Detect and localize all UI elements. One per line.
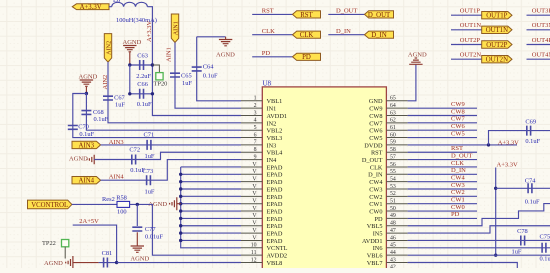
capacitor C81 (series)	[104, 258, 108, 268]
svg-text:R58: R58	[116, 194, 127, 201]
svg-text:0.1uF: 0.1uF	[525, 138, 540, 145]
svg-text:VBL3: VBL3	[267, 135, 283, 142]
svg-text:C77: C77	[145, 226, 156, 233]
svg-text:CLK: CLK	[370, 164, 383, 171]
svg-text:AIN1: AIN1	[166, 47, 173, 62]
junction	[85, 92, 88, 95]
svg-text:CW9: CW9	[451, 101, 465, 108]
pin V EPAD (left)	[241, 239, 262, 241]
svg-text:IN5: IN5	[373, 231, 383, 238]
pin 1 VBL1 (left)	[241, 100, 262, 102]
svg-text:1uF: 1uF	[182, 80, 192, 87]
svg-text:VBL7: VBL7	[367, 260, 383, 267]
svg-text:63: 63	[390, 110, 396, 116]
wire EPAD row	[181, 195, 241, 197]
wire DVDD A+3.3V	[408, 144, 517, 146]
svg-text:CW7: CW7	[369, 120, 382, 127]
port VCONTROL	[28, 200, 72, 209]
svg-text:C74: C74	[525, 178, 536, 185]
wire IN6 through C75	[408, 247, 550, 249]
test point TP22 pin	[64, 247, 66, 259]
wire AIN4 to pin 9	[101, 160, 241, 181]
pin 44 VBL6 (right)	[386, 254, 407, 256]
pin V EPAD (left)	[241, 188, 262, 190]
svg-text:8: 8	[254, 147, 257, 153]
port AIN3	[72, 141, 101, 148]
svg-text:0.1uF: 0.1uF	[94, 116, 109, 123]
wire VBL5	[408, 204, 550, 226]
svg-text:45: 45	[390, 243, 396, 249]
svg-text:DVDD: DVDD	[364, 142, 383, 149]
wire C70 to pin 6 VBL3	[73, 94, 241, 138]
wire VBL7	[408, 263, 518, 269]
pin 46 AVDD1 (right)	[386, 239, 407, 241]
capacitor C73 (series)	[147, 175, 151, 185]
pin 65 GND (right)	[386, 100, 407, 102]
junction	[179, 217, 182, 220]
svg-text:IN1: IN1	[267, 106, 277, 113]
wire EPAD row	[181, 210, 241, 212]
wire to C74	[496, 187, 550, 189]
pin 49 PD (right)	[386, 217, 407, 219]
pin 7 IN3 (left)	[241, 144, 262, 146]
pin 64 CW9 (right)	[386, 107, 407, 109]
ground stem	[129, 52, 131, 65]
pin 51 CW1 (right)	[386, 203, 407, 205]
svg-text:OUT1P: OUT1P	[486, 13, 507, 20]
svg-text:46: 46	[390, 235, 396, 241]
svg-text:AGND: AGND	[44, 260, 63, 267]
svg-text:AIN3: AIN3	[109, 139, 124, 146]
svg-text:VBL5: VBL5	[367, 223, 383, 230]
capacitor C75 (series)	[542, 243, 546, 253]
svg-text:C68: C68	[93, 109, 104, 116]
junction	[179, 239, 182, 242]
svg-text:EPAD: EPAD	[267, 238, 283, 245]
capacitor C71 (series)	[147, 140, 151, 150]
junction	[151, 92, 154, 95]
svg-text:RST: RST	[371, 150, 383, 157]
wire	[109, 6, 112, 8]
svg-text:55: 55	[390, 169, 396, 175]
svg-text:PD: PD	[374, 216, 383, 223]
junction	[179, 231, 182, 234]
svg-text:1uF: 1uF	[145, 189, 155, 196]
svg-text:OUT4P: OUT4P	[532, 37, 550, 44]
svg-text:7: 7	[254, 140, 257, 146]
wire C66 row	[130, 93, 153, 95]
wire EPAD row	[181, 203, 241, 205]
svg-text:AVDD1: AVDD1	[362, 238, 383, 245]
svg-text:Res2: Res2	[102, 196, 115, 203]
ground stem	[225, 37, 227, 40]
wire CW5	[408, 137, 477, 139]
svg-text:5: 5	[254, 125, 257, 131]
wire	[99, 262, 117, 264]
svg-text:EPAD: EPAD	[267, 223, 283, 230]
svg-text:1uF: 1uF	[512, 249, 522, 256]
wire C68 to pin 5 VBL2	[86, 94, 241, 131]
wire RST	[408, 151, 477, 153]
wire OUT1N	[451, 29, 482, 31]
svg-text:50: 50	[390, 206, 396, 212]
svg-text:1uF: 1uF	[115, 102, 125, 109]
pin 54 CW4 (right)	[386, 181, 407, 183]
svg-text:D_IN: D_IN	[371, 32, 387, 39]
pin V EPAD (left)	[241, 181, 262, 183]
svg-text:VBL4: VBL4	[267, 150, 284, 157]
svg-text:62: 62	[390, 118, 396, 124]
svg-text:RST: RST	[262, 8, 274, 15]
wire CW0	[408, 210, 477, 212]
svg-text:CW0: CW0	[369, 208, 382, 215]
wire VBL6	[408, 254, 550, 256]
wire EPAD row	[181, 166, 241, 168]
svg-text:CLK: CLK	[300, 32, 314, 39]
ground AGND symbol (horizontal)	[87, 155, 94, 165]
svg-text:CLK: CLK	[262, 28, 275, 35]
junction	[128, 92, 131, 95]
svg-text:OUT2N: OUT2N	[460, 52, 482, 59]
ground stem	[85, 87, 87, 94]
wire R58 to pin 11 AVDD2	[130, 204, 241, 255]
wire C63 row	[130, 64, 153, 66]
pin 6 VBL3 (left)	[241, 137, 262, 139]
wire A+3.3V to pin 3 AVDD1	[147, 7, 241, 116]
svg-text:0.1uF: 0.1uF	[525, 198, 540, 205]
svg-text:D_IN: D_IN	[336, 28, 351, 35]
wire OUT2P	[451, 44, 482, 46]
ground AGND symbol	[409, 58, 422, 64]
svg-text:D_OUT: D_OUT	[451, 152, 472, 159]
power port A+3.3V	[72, 4, 109, 10]
svg-text:IN6: IN6	[373, 245, 383, 252]
capacitor C74 (series)	[528, 183, 532, 193]
svg-text:CW9: CW9	[369, 106, 382, 113]
svg-text:OUT1N: OUT1N	[460, 22, 482, 29]
capacitor C78 (series)	[521, 235, 525, 245]
svg-text:53: 53	[390, 184, 396, 190]
wire AGND rail	[129, 65, 131, 94]
svg-text:6: 6	[254, 132, 257, 138]
capacitor C77	[132, 227, 142, 231]
wire to C77	[136, 204, 138, 226]
svg-text:OUT2N: OUT2N	[486, 57, 508, 64]
junction	[179, 195, 182, 198]
svg-text:D_OUT: D_OUT	[368, 12, 391, 19]
wire AVDD1 through C78	[408, 239, 550, 241]
svg-text:2A+5V: 2A+5V	[79, 218, 99, 225]
wire AIN3 to pin 7	[101, 144, 241, 146]
svg-text:AGND: AGND	[130, 256, 149, 263]
pin 45 IN6 (right)	[386, 247, 407, 249]
capacitor C67 (series on AIN2)	[103, 96, 113, 100]
junction	[487, 143, 490, 146]
svg-text:C73: C73	[143, 168, 154, 175]
wire OUT4N	[527, 58, 550, 60]
wire CW6	[408, 129, 477, 131]
svg-text:C81: C81	[102, 250, 113, 257]
pin 2 IN1 (left)	[241, 107, 262, 109]
svg-text:2: 2	[254, 103, 257, 109]
svg-text:D_OUT: D_OUT	[336, 8, 357, 15]
svg-text:TP22: TP22	[42, 240, 56, 247]
svg-text:AVDD1: AVDD1	[267, 113, 288, 120]
svg-text:PD: PD	[262, 50, 271, 57]
svg-text:56: 56	[390, 162, 396, 168]
svg-text:A+3.3V: A+3.3V	[497, 161, 518, 168]
wire D_OUT	[328, 13, 364, 15]
svg-text:CW2: CW2	[451, 189, 465, 196]
svg-text:100: 100	[117, 208, 127, 215]
pin 62 CW7 (right)	[386, 122, 407, 124]
svg-text:0.1u: 0.1u	[540, 256, 550, 263]
svg-text:CW5: CW5	[451, 130, 465, 137]
pin 52 CW2 (right)	[386, 195, 407, 197]
svg-text:VBL1: VBL1	[267, 98, 283, 105]
svg-text:12: 12	[251, 257, 257, 263]
wire A+3.3V rail	[495, 168, 497, 256]
pin 12 VBL8 (left)	[241, 262, 262, 264]
pin V EPAD (left)	[241, 210, 262, 212]
svg-text:AIN3: AIN3	[79, 142, 95, 149]
svg-text:EPAD: EPAD	[267, 208, 283, 215]
svg-text:VCNTL: VCNTL	[267, 245, 288, 252]
ground AGND symbol (horizontal)	[66, 256, 73, 269]
wire OUT3P	[527, 14, 550, 16]
svg-text:AVDD2: AVDD2	[267, 253, 288, 260]
svg-text:0.1uF: 0.1uF	[79, 131, 94, 138]
svg-text:OUT3P: OUT3P	[532, 8, 550, 15]
port D_OUT	[365, 11, 394, 18]
svg-text:OUT2P: OUT2P	[460, 37, 481, 44]
ground AGND symbol	[219, 40, 232, 46]
pin 63 CW8 (right)	[386, 115, 407, 117]
svg-text:VCONTROL: VCONTROL	[31, 202, 68, 209]
pin 58 RST (right)	[386, 151, 407, 153]
svg-text:TP20: TP20	[154, 80, 168, 87]
svg-text:3: 3	[254, 110, 257, 116]
svg-text:61: 61	[390, 125, 396, 131]
svg-text:44: 44	[390, 250, 396, 256]
svg-text:VBL6: VBL6	[367, 253, 383, 260]
wire OUT4P	[527, 44, 550, 46]
pin 4 IN2 (left)	[241, 122, 262, 124]
svg-text:C65: C65	[181, 72, 192, 79]
svg-text:PD: PD	[302, 54, 311, 61]
svg-text:59: 59	[390, 140, 396, 146]
capacitor C66	[140, 89, 144, 99]
junction	[494, 187, 497, 190]
port OUT2P	[482, 41, 512, 48]
svg-text:VBL8: VBL8	[267, 260, 283, 267]
port CLK	[293, 31, 321, 38]
wire OUT1P	[451, 14, 482, 16]
wire D_IN	[328, 34, 364, 36]
wire AIN2 to pin 4	[108, 62, 241, 123]
svg-text:9: 9	[254, 154, 257, 160]
op-amp U8 body	[262, 87, 386, 273]
pin V EPAD (left)	[241, 203, 262, 205]
ground AGND symbol	[80, 80, 93, 86]
test point TP20 pin	[152, 65, 159, 73]
svg-text:47: 47	[390, 228, 396, 234]
svg-text:52: 52	[390, 191, 396, 197]
svg-text:AGND: AGND	[69, 156, 88, 163]
svg-text:65: 65	[390, 96, 396, 102]
wire C64 to pin 1	[197, 37, 241, 101]
wire EPAD row	[181, 173, 241, 175]
pin 10 VCNTL (left)	[241, 247, 262, 249]
wire D_OUT	[408, 159, 477, 161]
wire 2A+5V	[73, 225, 117, 262]
wire VCONTROL to R58	[72, 203, 117, 205]
wire D_IN	[408, 173, 477, 175]
port RST	[293, 11, 321, 18]
svg-text:IN3: IN3	[267, 142, 277, 149]
svg-text:CW5: CW5	[369, 135, 382, 142]
wire pin65 GND to AGND	[408, 65, 416, 101]
junction	[179, 180, 182, 183]
resistor R58	[117, 201, 130, 207]
wire to pin 12	[117, 262, 241, 264]
wire CW2	[408, 195, 477, 197]
svg-text:C71: C71	[144, 132, 155, 139]
pin 50 CW0 (right)	[386, 210, 407, 212]
wire CW1	[408, 203, 477, 205]
svg-text:OUT1N: OUT1N	[486, 27, 508, 34]
pin 57 D_OUT (right)	[386, 159, 407, 161]
svg-text:AIN4: AIN4	[79, 178, 95, 185]
port AIN4	[72, 177, 101, 184]
junction	[179, 209, 182, 212]
wire CW8	[408, 115, 477, 117]
wire EPAD row	[181, 181, 241, 183]
pin V EPAD (left)	[241, 217, 262, 219]
svg-text:A+3.3V: A+3.3V	[498, 139, 519, 146]
pin 60 CW5 (right)	[386, 137, 407, 139]
svg-text:L6: L6	[113, 0, 120, 4]
svg-text:CW1: CW1	[369, 201, 382, 208]
svg-text:RST: RST	[451, 145, 463, 152]
svg-text:EPAD: EPAD	[267, 172, 283, 179]
wire EPAD bus to pin 10 VCNTL	[181, 167, 241, 248]
svg-text:64: 64	[390, 103, 396, 109]
svg-text:CW3: CW3	[369, 186, 382, 193]
svg-text:EPAD: EPAD	[267, 179, 283, 186]
svg-text:0.01uF: 0.01uF	[145, 234, 163, 241]
capacitor C65 (series on AIN1)	[170, 73, 180, 77]
port OUT2N	[482, 56, 512, 63]
junction	[128, 63, 131, 66]
svg-text:D_OUT: D_OUT	[362, 157, 383, 164]
svg-text:10: 10	[251, 243, 257, 249]
svg-text:IN2: IN2	[267, 120, 277, 127]
pin V EPAD (left)	[241, 166, 262, 168]
inductor L6	[112, 2, 148, 6]
test point TP22	[62, 240, 69, 247]
svg-text:OUT4N: OUT4N	[532, 52, 550, 59]
svg-text:A+3.3V: A+3.3V	[146, 21, 153, 42]
svg-text:51: 51	[390, 199, 396, 205]
wire CW4	[408, 181, 477, 183]
svg-text:43: 43	[390, 257, 396, 263]
wire AGND to C81	[73, 262, 99, 264]
wire CW7	[408, 122, 477, 124]
svg-text:OUT1P: OUT1P	[460, 8, 481, 15]
pin 53 CW3 (right)	[386, 188, 407, 190]
wire CLK	[252, 34, 292, 36]
junction	[179, 202, 182, 205]
ground AGND symbol	[131, 246, 144, 252]
svg-text:54: 54	[390, 176, 396, 182]
svg-text:AIN2: AIN2	[105, 41, 112, 55]
wire C72 to pin 8 VBL4	[94, 152, 241, 159]
svg-text:CW2: CW2	[369, 194, 382, 201]
pin V EPAD (left)	[241, 225, 262, 227]
wire AIN1 to pin 2	[175, 43, 241, 109]
pin 55 D_IN (right)	[386, 173, 407, 175]
wire EPAD row	[181, 239, 241, 241]
junction	[136, 203, 139, 206]
port D_IN	[365, 31, 394, 38]
capacitor C68	[81, 111, 91, 115]
capacitor C72 (series)	[132, 155, 136, 165]
svg-text:IN4: IN4	[267, 157, 278, 164]
svg-text:A+3.3V: A+3.3V	[80, 4, 102, 11]
svg-text:AGND: AGND	[216, 52, 235, 59]
svg-text:11: 11	[251, 250, 257, 256]
port OUT1P	[482, 12, 512, 19]
svg-text:4: 4	[254, 118, 257, 124]
port PD	[293, 53, 321, 60]
svg-text:EPAD: EPAD	[267, 186, 283, 193]
wire CLK	[408, 166, 477, 168]
wire RST	[252, 13, 292, 15]
svg-text:OUT3N: OUT3N	[532, 22, 550, 29]
capacitor C70	[68, 126, 78, 130]
svg-text:CW3: CW3	[451, 182, 465, 189]
capacitor C63	[140, 60, 144, 70]
junction	[115, 261, 118, 264]
svg-text:C64: C64	[203, 64, 214, 71]
junction	[151, 63, 154, 66]
svg-text:CW4: CW4	[451, 174, 465, 181]
wire PD	[408, 217, 477, 219]
svg-text:CW8: CW8	[451, 108, 465, 115]
svg-text:58: 58	[390, 147, 396, 153]
svg-text:48: 48	[390, 221, 396, 227]
wire OUT3N	[527, 29, 550, 31]
pin V EPAD (left)	[241, 232, 262, 234]
svg-text:D_IN: D_IN	[451, 167, 466, 174]
wire EPAD row	[181, 225, 241, 227]
pin 9 IN4 (left)	[241, 159, 262, 161]
pin 47 IN5 (right)	[386, 232, 407, 234]
port OUT1N	[482, 26, 512, 33]
wire C77 to AGND	[136, 232, 138, 245]
svg-text:1: 1	[254, 96, 257, 102]
pin 43 VBL7 (right)	[386, 262, 407, 264]
svg-text:CW7: CW7	[451, 116, 465, 123]
wire PD	[252, 56, 292, 58]
pin V EPAD (left)	[241, 195, 262, 197]
ground stem	[177, 203, 181, 205]
wire EPAD row	[181, 232, 241, 234]
svg-text:PD: PD	[451, 211, 460, 218]
svg-text:42: 42	[390, 265, 396, 268]
svg-text:CW4: CW4	[369, 179, 383, 186]
